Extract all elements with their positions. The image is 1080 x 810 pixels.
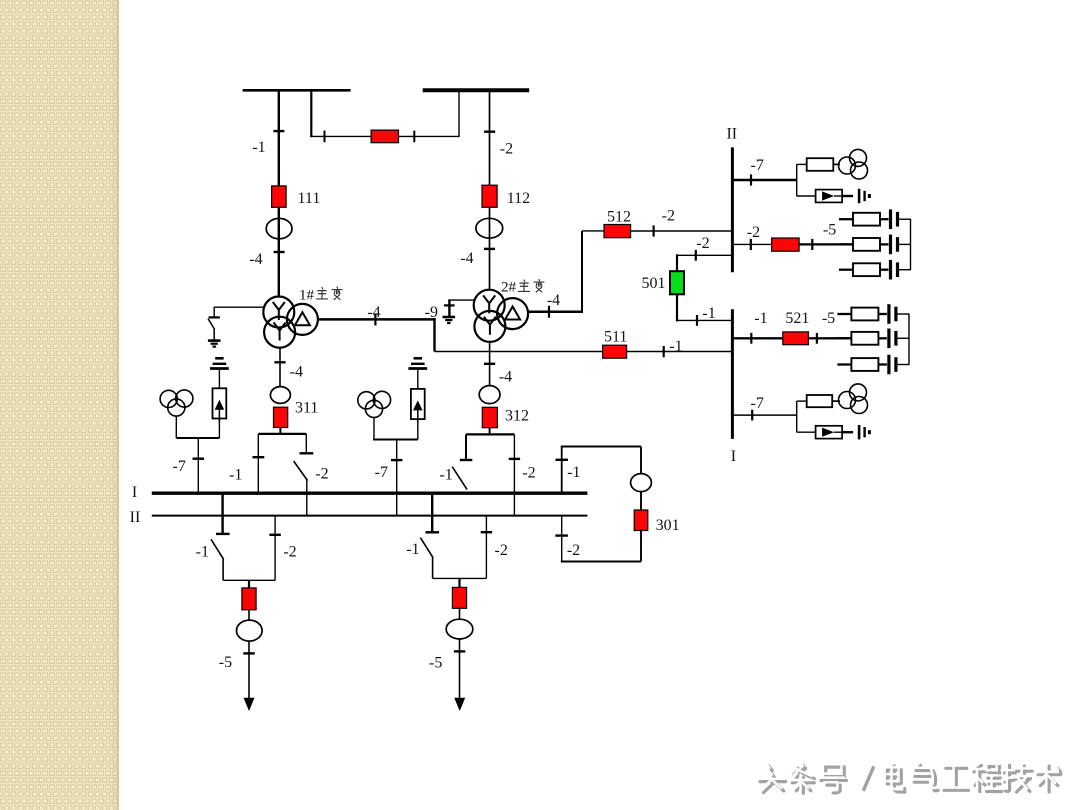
wire breaker to bank — [799, 243, 853, 245]
wire 511 to bus I — [627, 351, 733, 353]
wire 521 to bank — [808, 337, 851, 339]
arrester F3 — [213, 388, 227, 422]
svg-text:-2: -2 — [500, 141, 513, 158]
svg-text:-7: -7 — [375, 464, 388, 481]
tick -2 — [269, 534, 280, 536]
svg-text:-4: -4 — [367, 304, 380, 321]
svg-text:-1: -1 — [702, 305, 715, 322]
svg-text:I: I — [731, 448, 736, 465]
svg-text:521: 521 — [785, 310, 809, 327]
TV3 stem — [175, 416, 177, 438]
breaker 312 — [482, 407, 497, 427]
feeder B breaker — [452, 587, 466, 608]
311 tee bar — [258, 433, 306, 435]
311 -1 dropper to bus I — [257, 434, 259, 492]
tick -5 — [816, 333, 818, 344]
svg-text:II: II — [726, 126, 737, 143]
coupler CT circle — [631, 474, 652, 492]
tick -2 — [509, 458, 520, 460]
svg-text:1#: 1# — [299, 287, 315, 303]
breaker 511 — [603, 345, 627, 358]
feeder B join bar — [433, 577, 487, 579]
inverted ground over arrester F3 — [210, 358, 229, 368]
coupler right lower wire — [640, 531, 642, 562]
feeder A CT circle — [237, 620, 263, 641]
tick -1 — [556, 459, 569, 461]
svg-text:-5: -5 — [823, 222, 836, 239]
bus I vertical (right) — [731, 309, 734, 439]
wire to arrester bottom — [797, 431, 816, 433]
tick -2 on 501 upper — [695, 250, 697, 261]
feeder A open blade — [211, 539, 224, 559]
svg-text:312: 312 — [505, 408, 529, 425]
transformer U2 (2# main) — [474, 290, 528, 342]
T2 low side wire — [489, 342, 491, 386]
wire line2 drop from W2 — [489, 90, 491, 290]
T2 neutral ground — [443, 317, 456, 323]
bus W2 (110kV right) — [423, 88, 530, 92]
svg-text:2#: 2# — [501, 279, 517, 295]
312 tee bar — [466, 433, 514, 435]
capacitor branch C2c — [837, 355, 909, 375]
T1 neutral switch contact bar — [209, 316, 220, 318]
coupler top wire — [561, 446, 641, 448]
feeder A line stem — [248, 641, 250, 702]
501 upper wire -2 — [677, 254, 732, 256]
arrester F4 — [411, 389, 425, 423]
T1 delta — [295, 312, 310, 325]
tick -1 on 511 wire — [663, 346, 665, 357]
left textured sidebar — [0, 0, 119, 810]
svg-text:-2: -2 — [315, 466, 328, 483]
svg-text:301: 301 — [656, 517, 680, 534]
tick -5 — [811, 239, 813, 250]
bridge breaker — [371, 130, 398, 143]
tick -2 on 512 wire — [652, 225, 654, 236]
svg-text:-7: -7 — [751, 157, 764, 174]
arrester F2 with earth — [816, 425, 870, 439]
312 stem — [489, 428, 491, 435]
wire line1 drop from W1 — [278, 90, 280, 296]
svg-text:-4: -4 — [290, 364, 303, 381]
TV3 junction bar — [176, 437, 219, 439]
feeder B line stem — [459, 639, 461, 702]
breaker 301 — [634, 510, 648, 531]
T1 neutral switch open blade — [208, 319, 215, 330]
T1 neutral lower wire — [213, 329, 215, 340]
feeder B open blade — [420, 538, 433, 558]
coupler 301 -1 riser — [561, 447, 563, 492]
wire to 511 — [435, 351, 603, 353]
tick -2 — [750, 239, 752, 250]
feeder A -2 dropper — [274, 516, 276, 581]
CT circle on line1 — [266, 218, 292, 238]
CT circle above 311 — [270, 387, 290, 404]
tick -4 on T1 output — [374, 313, 376, 325]
svg-text:-1: -1 — [439, 467, 452, 484]
feeder A join bar — [223, 579, 275, 581]
tick -4 T2 low — [484, 363, 495, 365]
bridge wire horizontal — [310, 135, 371, 137]
feeder B left drop — [432, 557, 434, 578]
svg-text:-1: -1 — [669, 338, 682, 355]
svg-text:-4: -4 — [499, 369, 512, 386]
T2 neutral wire -9 — [449, 299, 474, 301]
T1 delta output wire — [318, 318, 436, 321]
breaker cap bank 1 — [772, 238, 800, 251]
main bus I — [152, 492, 588, 495]
inverted ground over arrester F4 — [408, 358, 427, 368]
svg-text:501: 501 — [642, 275, 666, 292]
T2 delta output wire — [528, 310, 583, 313]
transformer U1 (1# main) — [263, 297, 318, 348]
T1 wye bottom — [274, 323, 286, 341]
311 -2 dropper to bus II — [306, 480, 308, 515]
CT circle above 312 — [479, 386, 500, 404]
svg-text:-7: -7 — [173, 458, 186, 475]
501 upper corner — [676, 254, 678, 271]
tick -7 — [750, 174, 752, 185]
junction riser bottom — [796, 401, 798, 432]
bus II vertical (right) — [731, 147, 734, 272]
breaker 521 — [783, 332, 809, 345]
wire fuse to PT bottom — [832, 400, 840, 402]
breaker 111 — [272, 186, 287, 207]
capacitor branch C2b — [837, 329, 909, 349]
PT TV4 (middle, 3 circles) — [358, 391, 391, 417]
disconnector -4 tick on line1 — [274, 251, 285, 253]
feeder A stem — [248, 580, 250, 588]
breaker 311 — [274, 407, 288, 427]
tick -5 — [454, 650, 465, 652]
disconnector -4 tick on line2 — [484, 248, 495, 250]
PT TV2 (3 circles) — [839, 384, 868, 414]
svg-text:-1: -1 — [252, 139, 265, 156]
svg-text:511: 511 — [604, 329, 627, 346]
T1 low side wire — [279, 348, 281, 387]
svg-text:311: 311 — [295, 400, 318, 417]
feeder A -1 dropper — [221, 493, 223, 533]
312 -2 dropper to bus II — [513, 434, 515, 515]
svg-text:-7: -7 — [751, 395, 764, 412]
bridge tick left — [324, 131, 326, 143]
T2 output riser — [581, 231, 583, 312]
svg-text:-2: -2 — [567, 542, 580, 559]
feeder B -2 dropper — [485, 516, 487, 579]
svg-text:I: I — [132, 484, 137, 501]
svg-text:-1: -1 — [196, 544, 209, 561]
tick -1 — [253, 456, 265, 458]
svg-text:512: 512 — [607, 209, 631, 226]
wire 512 to bus II — [631, 230, 733, 232]
bus W1 (110kV left) — [243, 89, 351, 92]
wire to arrester — [797, 195, 816, 197]
311 stem — [279, 428, 281, 434]
311 -2 open blade — [294, 461, 308, 481]
feeder B stem — [458, 578, 460, 587]
feeder A contact bar — [216, 533, 230, 535]
tick -7 — [751, 410, 753, 421]
bridge wire right vertical — [458, 90, 460, 137]
tick -1 — [750, 333, 752, 344]
svg-text:-1: -1 — [406, 541, 419, 558]
F4 lower stem — [417, 419, 419, 439]
capacitor branch C2a — [837, 304, 909, 324]
fuse box top PT — [807, 158, 834, 171]
312 -1 contact bar — [460, 459, 473, 461]
coupler mid stem — [640, 492, 642, 511]
svg-text:-2: -2 — [522, 465, 535, 482]
T2 wye bottom — [484, 317, 496, 335]
svg-text:-5: -5 — [822, 310, 835, 327]
svg-text:-1: -1 — [754, 310, 767, 327]
wire to fuse bottom — [797, 400, 807, 402]
branch -7 wire (bottom PT) — [732, 414, 796, 416]
T1 output corner drop — [433, 318, 435, 351]
capacitor branch C1b — [839, 235, 911, 255]
F3 upper stem — [218, 369, 220, 389]
junction riser — [796, 164, 798, 196]
svg-text:-4: -4 — [460, 250, 473, 267]
coupler bottom wire — [561, 561, 641, 563]
footer watermark 头条号 / 电气工程技术 — [757, 763, 1061, 794]
coupler -2 dropper — [561, 516, 563, 562]
svg-text:-2: -2 — [747, 224, 760, 241]
CT circle on line2 — [476, 218, 503, 238]
branch -7 wire (top PT) — [732, 179, 796, 181]
svg-text:-2: -2 — [495, 542, 508, 559]
transformer T2 label 2#主变 — [501, 279, 544, 295]
312 -1 upper stub — [465, 434, 467, 459]
svg-text:II: II — [130, 509, 141, 526]
TV4 stem — [373, 417, 375, 439]
tick -4 T1 low — [274, 361, 285, 363]
svg-text:-4: -4 — [249, 251, 262, 268]
arrester F1 with earth — [816, 189, 870, 203]
wire to fuse — [797, 163, 807, 165]
disconnector -1 tick on line1 — [273, 130, 284, 132]
T2 delta — [505, 307, 520, 320]
feeder A left drop — [222, 559, 224, 581]
F4 upper stem — [417, 369, 419, 389]
branch 521 wire — [732, 337, 782, 339]
breaker 501 (green, open) — [670, 271, 684, 294]
312 -1 open blade to bus I — [452, 467, 467, 490]
TV4 junction bar — [373, 439, 418, 441]
feeder B contact bar — [426, 531, 440, 533]
feeder B stem2 — [459, 608, 461, 619]
bridge wire left vertical — [310, 90, 312, 137]
PT TV1 (3 circles) — [839, 149, 868, 179]
fuse box bottom PT — [807, 395, 833, 407]
bridge tick right — [413, 131, 415, 143]
bridge wire right — [399, 135, 460, 137]
tick -4 on T2 output — [548, 306, 550, 318]
transformer T1 label 1#主变 — [299, 287, 342, 303]
T1 neutral ground — [208, 341, 221, 347]
svg-text:-2: -2 — [696, 235, 709, 252]
breaker 512 — [604, 225, 631, 238]
svg-text:-4: -4 — [547, 292, 560, 309]
T2 wye top — [483, 295, 495, 313]
T1 neutral wire — [214, 306, 263, 308]
svg-text:-2: -2 — [662, 208, 675, 225]
feeder A breaker — [242, 588, 256, 610]
main bus II — [152, 515, 588, 517]
svg-text:-2: -2 — [283, 544, 296, 561]
T1 wye top — [273, 302, 285, 320]
PT TV3 (left, 3 circles) — [160, 390, 193, 416]
311 -2 contact bar — [300, 452, 314, 454]
feeder B CT circle — [446, 619, 473, 639]
svg-text:112: 112 — [507, 190, 530, 207]
501 lower riser — [676, 294, 678, 321]
tick -2 — [481, 531, 492, 533]
T2 neutral switch tick — [444, 304, 455, 306]
F3 lower stem — [218, 418, 220, 438]
feeder A stem2 — [248, 610, 250, 620]
capacitor branch C1a — [839, 209, 911, 229]
bank 2 right connector — [908, 314, 910, 365]
breaker 112 — [482, 185, 497, 207]
wire riser to 512 — [582, 230, 604, 232]
feeder A arrowhead — [244, 698, 255, 711]
svg-text:-5: -5 — [219, 654, 232, 671]
feeder B -1 dropper — [431, 493, 433, 531]
wire fuse to PT — [833, 163, 840, 165]
tick -1 on 501 lower — [696, 315, 698, 326]
feeder B arrowhead — [454, 698, 465, 711]
501 lower wire -1 — [677, 319, 732, 321]
capacitor branch C1c — [839, 260, 911, 280]
-7 dropper to bus I — [197, 438, 199, 492]
-7 dropper to bus II — [396, 440, 398, 516]
tick -7 — [193, 458, 205, 460]
branch -2 wire (cap bank 1) — [732, 243, 771, 245]
tick -7 — [391, 459, 402, 461]
svg-text:111: 111 — [298, 190, 321, 207]
coupler right upper wire — [640, 447, 642, 475]
311 -2 upper stub — [305, 434, 307, 453]
svg-text:-1: -1 — [567, 464, 580, 481]
tick -2 — [555, 534, 568, 536]
disconnector -2 tick on line2 — [484, 130, 495, 132]
svg-text:-1: -1 — [229, 467, 242, 484]
bank 1 right connector — [910, 219, 912, 270]
svg-text:-5: -5 — [429, 655, 442, 672]
tick -5 — [243, 652, 254, 654]
